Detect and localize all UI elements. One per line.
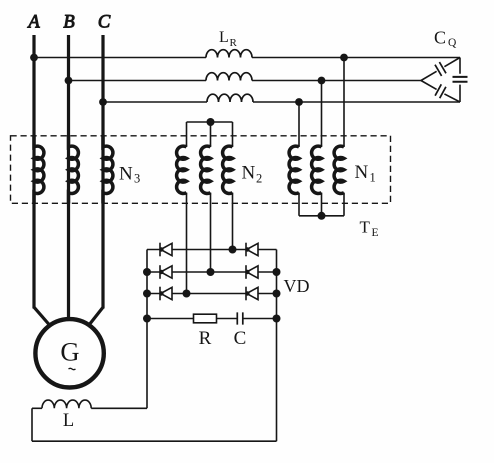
winding N3 phase B <box>69 135 79 204</box>
label LR <box>219 29 238 49</box>
svg-text:G: G <box>60 337 79 367</box>
wire N1 star bar <box>299 215 344 217</box>
inductor L <box>42 400 91 408</box>
transformer TE dashed box <box>11 136 391 204</box>
wire line2 left <box>69 80 207 82</box>
svg-text:T: T <box>360 218 371 237</box>
generator G circle <box>35 319 103 387</box>
svg-text:R: R <box>230 37 238 49</box>
wire phase A vertical <box>32 35 35 309</box>
svg-text:E: E <box>372 227 379 239</box>
diode VD1 left <box>159 243 172 257</box>
svg-text:A: A <box>26 13 40 33</box>
wire bridge left bus <box>146 250 148 409</box>
diode VD1 right <box>245 243 258 257</box>
svg-text:1: 1 <box>370 171 376 185</box>
diode VD3 right <box>245 287 258 301</box>
wire N2 coil-c top <box>232 122 234 147</box>
wire N2 coil-a to bridge <box>186 193 188 294</box>
node N1 star point <box>318 212 326 220</box>
label N3 <box>119 164 140 186</box>
capacitor CQ delta upper diagonal <box>421 58 460 81</box>
capacitor CQ right plates <box>453 77 468 82</box>
node N2 star point <box>207 118 215 126</box>
wire phase C vertical <box>101 35 104 309</box>
node RC-left <box>143 315 151 323</box>
inductor LR phase1 <box>206 50 252 58</box>
winding N2 coil b <box>201 146 211 193</box>
wire bottom rail <box>32 440 277 442</box>
wire line3 right <box>253 101 460 103</box>
node junction line2-N1 <box>318 77 326 85</box>
winding N2 coil a <box>177 146 187 193</box>
winding N3 phase A <box>34 135 44 204</box>
capacitor CQ lower diagonal <box>421 81 460 103</box>
svg-text:R: R <box>199 328 212 349</box>
resistor R <box>194 314 217 323</box>
label TE <box>360 218 379 240</box>
diode VD2 right <box>245 265 258 279</box>
svg-text:B: B <box>63 13 74 33</box>
node row3-right <box>273 290 281 298</box>
capacitor CQ lower plates <box>435 84 446 98</box>
label N2 <box>242 162 263 185</box>
diode VD3 left <box>159 287 172 301</box>
node junction line1-N1 <box>340 54 348 62</box>
wire N2 coil-b to bridge <box>210 193 212 272</box>
wire bridge row2 <box>147 271 277 273</box>
wire N1 coil-b bottom <box>321 193 323 216</box>
wire line1 right <box>252 57 460 59</box>
wire RC row left <box>147 318 194 320</box>
inductor LR phase3 <box>207 94 253 102</box>
wire RC row mid <box>217 318 238 320</box>
winding N1 coil c <box>334 146 344 193</box>
node RC-right <box>273 315 281 323</box>
label CQ <box>434 28 457 49</box>
wire line1 left <box>34 57 206 59</box>
node row3-feed <box>183 290 191 298</box>
capacitor CQ upper plates <box>435 62 446 76</box>
node row2-feed <box>207 268 215 276</box>
node junction C-line3 <box>99 98 107 106</box>
wire N1 feed c <box>298 102 300 147</box>
svg-text:C: C <box>234 328 247 349</box>
wire line3 left <box>103 101 207 103</box>
svg-text:N: N <box>242 162 256 183</box>
winding N1 coil a <box>289 146 299 193</box>
wire N1 coil-c bottom <box>343 193 345 216</box>
winding N2 coil c <box>223 146 233 193</box>
wire N2 coil-b top <box>210 122 212 147</box>
svg-text:C: C <box>434 28 446 48</box>
node junction A-line1 <box>30 54 38 62</box>
svg-text:3: 3 <box>134 172 140 186</box>
wire N1 coil-a bottom <box>298 193 300 216</box>
wire N2 star bar <box>187 121 233 123</box>
wire phase A diagonal to G <box>34 307 51 326</box>
capacitor C plates <box>237 312 243 324</box>
svg-text:L: L <box>219 29 229 46</box>
svg-text:Q: Q <box>448 37 457 49</box>
wire bottom left vertical <box>31 408 33 441</box>
node row3-left <box>143 290 151 298</box>
generator tilde <box>69 368 76 369</box>
wire phase C diagonal to G <box>88 307 103 326</box>
wire L row right <box>91 407 147 409</box>
wire bridge right bus <box>276 250 278 442</box>
svg-text:2: 2 <box>256 172 262 186</box>
svg-text:VD: VD <box>284 276 310 296</box>
wire RC row right <box>243 318 277 320</box>
node junction line3-N1 <box>295 98 303 106</box>
wire N1 feed b <box>321 81 323 148</box>
winding N1 coil b <box>312 146 322 193</box>
svg-text:N: N <box>355 162 369 183</box>
wire N2 coil-a top <box>186 122 188 147</box>
svg-text:C: C <box>98 13 111 33</box>
node row2-left <box>143 268 151 276</box>
wire bridge row3 <box>147 293 277 295</box>
svg-text:N: N <box>119 164 133 185</box>
wire phase B vertical <box>67 35 70 320</box>
wire L row left stub <box>32 407 42 409</box>
wire line2 right <box>252 80 421 82</box>
label N1 <box>355 162 376 185</box>
svg-text:L: L <box>63 411 74 431</box>
wire N2 coil-c to bridge <box>232 193 234 250</box>
wire CQ right vertical <box>459 58 461 103</box>
diode VD2 left <box>159 265 172 279</box>
node junction B-line2 <box>65 77 73 85</box>
wire bridge row1 <box>147 249 277 251</box>
winding N3 phase C <box>103 135 113 204</box>
inductor LR phase2 <box>206 73 252 81</box>
node row1-feed <box>229 246 237 254</box>
node row2-right <box>273 268 281 276</box>
wire N1 feed a <box>343 58 345 148</box>
